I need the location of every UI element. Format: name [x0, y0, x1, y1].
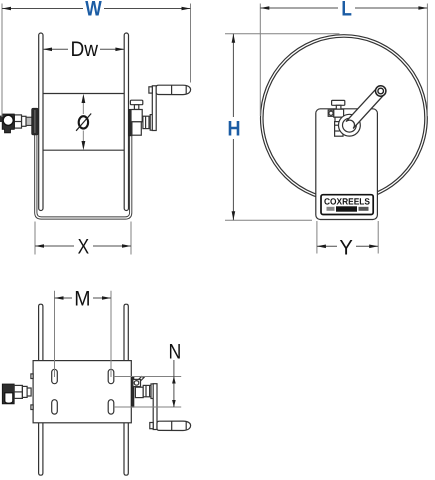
- dimension Ø (drum diameter): [76, 94, 91, 150]
- dimension M: [55, 288, 112, 377]
- reel disc inner circle: [263, 37, 425, 199]
- svg-text:L: L: [341, 0, 352, 21]
- crank hub cylinder (top view): [143, 385, 153, 396]
- crank arm (diagonal): [346, 88, 384, 129]
- dimension N: [114, 341, 182, 408]
- svg-text:N: N: [169, 341, 182, 364]
- shaft blocks: [135, 387, 143, 397]
- dimension H: [225, 34, 340, 221]
- crank valve T-handle cap: [332, 100, 345, 105]
- drum bottom edge: [43, 149, 125, 151]
- svg-text:M: M: [74, 288, 90, 311]
- slot top-left: [52, 369, 58, 383]
- mounting base plate: [33, 361, 131, 423]
- right bearing plate: [129, 109, 132, 135]
- valve lower block: [132, 122, 141, 135]
- handle end knob ring: [376, 86, 386, 96]
- svg-text:COXREELS: COXREELS: [324, 197, 370, 207]
- right flange (disc edge-on): [124, 33, 128, 211]
- T-handle stem: [134, 105, 138, 110]
- COXREELS label plate: [321, 195, 373, 215]
- swivel diagonal clip: [138, 377, 144, 382]
- left inlet valve body (dark): [2, 384, 14, 404]
- svg-text:W: W: [85, 0, 102, 21]
- valve knob: [3, 115, 13, 125]
- inlet cylinder: [22, 386, 27, 397]
- bracket below hub: [335, 122, 343, 137]
- crank arm plate (edge-on): [153, 384, 157, 430]
- valve upper block: [131, 110, 142, 122]
- dimension L: [260, 0, 427, 116]
- inlet hex nut: [14, 385, 22, 398]
- right dark plate strip: [131, 377, 134, 407]
- pedestal frame (side): [316, 109, 378, 220]
- right flange edge (bottom segment): [124, 423, 128, 475]
- left flange edge (top segment): [39, 304, 43, 360]
- inlet flange block: [27, 388, 31, 396]
- dimension X: [35, 222, 131, 259]
- left hub bearing plate: [32, 108, 39, 135]
- svg-text:H: H: [228, 117, 241, 140]
- swivel square + bolt: [133, 379, 141, 386]
- right flange edge (top segment): [124, 304, 128, 360]
- left ball valve body: [2, 114, 14, 133]
- dimension Y: [317, 221, 378, 259]
- left swivel disc: [26, 117, 32, 125]
- frame U-bracket: [36, 112, 131, 218]
- handle grip: [156, 85, 190, 94]
- svg-text:Dw: Dw: [71, 38, 99, 61]
- crank arm: [152, 86, 156, 131]
- svg-text:Y: Y: [339, 236, 353, 259]
- reel disc outer circle: [261, 35, 428, 202]
- hub inner cap: [343, 118, 357, 132]
- crank hub cylinder: [143, 116, 152, 128]
- slot bottom-right: [108, 400, 114, 414]
- left flange edge (bottom segment): [39, 423, 43, 475]
- pedestal mount square + bolt: [328, 110, 334, 116]
- valve body on pedestal: [334, 109, 344, 117]
- dimension Dw: [43, 38, 124, 61]
- dimension W: [2, 0, 191, 117]
- valve collar: [335, 117, 342, 121]
- crank hub disc: [339, 114, 361, 136]
- svg-text:X: X: [78, 235, 90, 258]
- T-handle stem: [336, 105, 341, 109]
- base left tabs: [31, 374, 33, 379]
- left inlet cylinder: [22, 116, 27, 126]
- inlet hose port opening: [5, 393, 13, 403]
- right T-handle valve cap: [130, 100, 142, 105]
- handle ferrule: [150, 423, 153, 429]
- slot top-right: [108, 369, 114, 383]
- handle grip (top view): [157, 421, 191, 430]
- crank hub flange disc: [150, 115, 153, 131]
- handle ferrule: [149, 87, 152, 93]
- left flange (disc edge-on): [39, 33, 43, 211]
- valve left tab: [0, 116, 2, 122]
- drum top edge: [43, 93, 125, 95]
- slot bottom-left: [52, 400, 58, 414]
- crank hub flange disc (top view): [151, 384, 154, 399]
- left inlet hex nut: [14, 115, 21, 128]
